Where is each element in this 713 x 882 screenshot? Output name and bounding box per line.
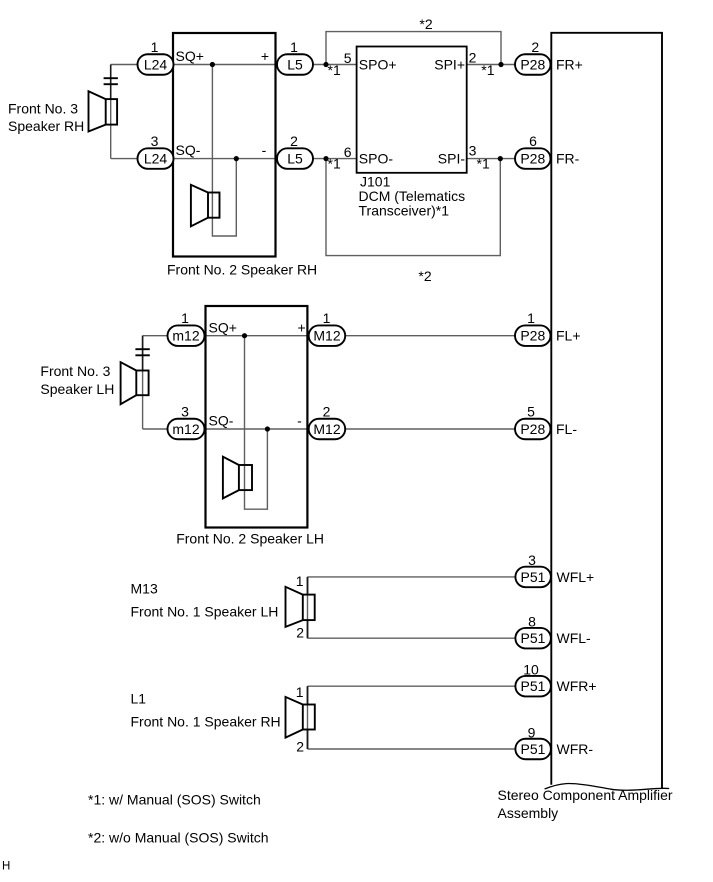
node dot row2 right of J101: [498, 156, 503, 161]
svg-text:2: 2: [296, 625, 304, 641]
lead dark M13 speaker top: [307, 577, 309, 595]
svg-text:Speaker LH: Speaker LH: [40, 381, 114, 397]
svg-text:*1: *1: [481, 62, 494, 78]
connector oval P51 pin10: [515, 676, 551, 697]
speaker symbol Front No.3 Speaker LH: [121, 362, 149, 404]
svg-text:P28: P28: [520, 151, 545, 167]
svg-text:Transceiver)*1: Transceiver)*1: [359, 203, 450, 219]
svg-text:8: 8: [528, 614, 536, 630]
connector oval m12 pin1: [168, 325, 205, 346]
svg-text:DCM (Telematics: DCM (Telematics: [359, 188, 466, 204]
wavy bottom edge of amplifier box: [545, 784, 670, 791]
connector oval L5 pin2: [277, 148, 313, 169]
lead dark capacitor LH top: [142, 336, 144, 371]
connector oval P51 pin9: [515, 739, 551, 760]
node dot row2 left of J101: [323, 156, 328, 161]
svg-text:WFR-: WFR-: [557, 741, 594, 757]
svg-text:2: 2: [531, 39, 539, 55]
node dot row3 box LH: [242, 333, 247, 338]
svg-text:Stereo Component Amplifier: Stereo Component Amplifier: [498, 787, 673, 803]
svg-text:-: -: [262, 142, 267, 158]
node dot row4 box LH: [265, 426, 270, 431]
svg-text:1: 1: [296, 684, 304, 700]
connector oval L5 pin1: [277, 54, 313, 75]
svg-text:L5: L5: [287, 57, 303, 73]
svg-text:FR-: FR-: [556, 151, 580, 167]
svg-text:SQ+: SQ+: [209, 319, 237, 335]
svg-text:L24: L24: [144, 57, 168, 73]
speaker symbol L1 Front No.1 Speaker RH: [286, 697, 315, 738]
connector oval P28 pin1: [515, 325, 551, 346]
svg-text:2: 2: [296, 739, 304, 755]
box Stereo Component Amplifier (wavy bottom): [551, 33, 662, 789]
node dot row1 box RH: [210, 62, 215, 67]
svg-text:1: 1: [181, 310, 189, 326]
connector oval P51 pin8: [515, 628, 551, 649]
svg-text:SPO+: SPO+: [359, 57, 397, 73]
svg-text:1: 1: [296, 573, 304, 589]
svg-text:P51: P51: [521, 741, 546, 757]
connector oval L24 pin3: [138, 148, 174, 169]
connector oval P28 pin5: [515, 419, 551, 440]
wire inside LH box loop: [245, 336, 268, 510]
svg-text:P51: P51: [521, 569, 546, 585]
wire *2 bypass bottom: [326, 159, 500, 256]
wire row2 FR- right: [467, 158, 515, 160]
svg-text:3: 3: [528, 552, 536, 568]
svg-text:5: 5: [344, 50, 352, 66]
wire inside RH box loop: [212, 65, 236, 237]
wire row6 WFL-: [308, 637, 516, 639]
connector oval M12 pin2: [309, 419, 346, 440]
svg-text:FL+: FL+: [556, 328, 581, 344]
connector oval m12 pin3: [168, 419, 205, 440]
wire row4 FL-: [143, 428, 515, 430]
wire *2 bypass top: [326, 32, 501, 65]
wire row7 WFR+: [308, 685, 516, 687]
svg-text:Front No. 2 Speaker LH: Front No. 2 Speaker LH: [176, 530, 324, 546]
svg-text:FR+: FR+: [556, 57, 583, 73]
svg-text:2: 2: [469, 49, 477, 65]
svg-text:6: 6: [529, 133, 537, 149]
svg-text:P28: P28: [520, 421, 545, 437]
svg-text:Front No. 3: Front No. 3: [40, 363, 110, 379]
svg-text:*2: w/o Manual (SOS) Switch: *2: w/o Manual (SOS) Switch: [88, 830, 269, 846]
svg-text:SQ-: SQ-: [176, 142, 201, 158]
svg-text:SQ-: SQ-: [209, 413, 234, 429]
svg-text:P28: P28: [520, 328, 545, 344]
svg-text:Front No. 1 Speaker LH: Front No. 1 Speaker LH: [131, 604, 279, 620]
wire row8 WFR-: [308, 748, 516, 750]
svg-text:*1: *1: [328, 156, 341, 172]
node dot row2 box RH: [234, 156, 239, 161]
capacitor C (Front No.3 Speaker LH): [135, 349, 149, 355]
svg-text:P51: P51: [521, 630, 546, 646]
svg-text:+: +: [261, 48, 269, 64]
svg-text:M12: M12: [313, 421, 340, 437]
capacitor C (Front No.3 Speaker RH): [104, 78, 118, 84]
svg-text:SQ+: SQ+: [176, 48, 204, 64]
svg-text:m12: m12: [172, 421, 199, 437]
lead dark capacitor RH top: [110, 65, 112, 100]
svg-text:*1: w/ Manual (SOS) Switch: *1: w/ Manual (SOS) Switch: [88, 792, 261, 808]
svg-text:L1: L1: [131, 691, 147, 707]
box Front No.2 Speaker RH: [173, 33, 276, 257]
speaker symbol inside Front No.2 Speaker RH: [191, 185, 220, 227]
wire speaker LH No.3 branch vertical: [142, 336, 144, 429]
svg-text:SPO-: SPO-: [359, 151, 394, 167]
box J101 DCM: [357, 47, 467, 173]
svg-text:Front No. 3: Front No. 3: [8, 101, 78, 117]
svg-text:P51: P51: [521, 678, 546, 694]
svg-text:SPI+: SPI+: [434, 57, 465, 73]
wire row5 WFL+: [308, 576, 516, 578]
svg-text:L5: L5: [287, 151, 303, 167]
wire L1 speaker vertical: [307, 686, 309, 749]
svg-text:3: 3: [469, 142, 477, 158]
svg-text:2: 2: [290, 133, 298, 149]
wire M13 speaker vertical: [307, 577, 309, 638]
svg-text:WFL-: WFL-: [557, 630, 592, 646]
connector oval L24 pin1: [138, 54, 174, 75]
node dot row1 left of J101: [323, 62, 328, 67]
svg-text:9: 9: [528, 724, 536, 740]
svg-text:-: -: [297, 413, 302, 429]
svg-text:P28: P28: [520, 57, 545, 73]
wire row3 FL+: [143, 335, 515, 337]
connector oval P28 pin6: [515, 148, 551, 169]
svg-text:Speaker RH: Speaker RH: [8, 118, 84, 134]
wire speaker RH No.3 branch vertical: [110, 65, 112, 159]
svg-text:6: 6: [344, 144, 352, 160]
svg-text:H: H: [2, 861, 10, 873]
svg-text:Front No. 1 Speaker RH: Front No. 1 Speaker RH: [131, 714, 281, 730]
svg-text:1: 1: [151, 39, 159, 55]
svg-text:*1: *1: [477, 156, 490, 172]
connector oval P28 pin2: [515, 54, 551, 75]
svg-text:M12: M12: [313, 328, 340, 344]
lead dark M13 speaker bottom: [307, 620, 309, 638]
svg-text:L24: L24: [144, 151, 168, 167]
lead dark L1 speaker bottom: [307, 730, 309, 750]
wire row1 FR+ right: [467, 64, 515, 66]
svg-text:M13: M13: [131, 581, 158, 597]
svg-text:1: 1: [323, 310, 331, 326]
box Front No.2 Speaker LH: [206, 306, 308, 528]
wire row1 FR+ left: [111, 64, 357, 66]
wire row2 FR- left: [111, 158, 357, 160]
svg-text:Assembly: Assembly: [498, 805, 559, 821]
svg-text:5: 5: [527, 404, 535, 420]
speaker symbol M13 Front No.1 Speaker LH: [286, 587, 315, 627]
node dot row1 right of J101: [498, 62, 503, 67]
lead dark L1 speaker top: [307, 686, 309, 704]
svg-text:3: 3: [151, 133, 159, 149]
svg-text:2: 2: [323, 404, 331, 420]
svg-text:3: 3: [181, 404, 189, 420]
svg-text:SPI-: SPI-: [438, 151, 466, 167]
speaker symbol Front No.3 Speaker RH: [89, 91, 118, 131]
svg-text:Front No. 2 Speaker RH: Front No. 2 Speaker RH: [167, 262, 317, 278]
svg-text:1: 1: [527, 310, 535, 326]
speaker symbol inside Front No.2 Speaker LH: [223, 457, 252, 499]
svg-text:1: 1: [290, 39, 298, 55]
svg-text:m12: m12: [172, 328, 199, 344]
svg-text:*1: *1: [328, 62, 341, 78]
connector oval P51 pin3: [515, 567, 551, 588]
svg-text:10: 10: [523, 662, 539, 678]
svg-text:+: +: [298, 319, 306, 335]
connector oval M12 pin1: [309, 325, 346, 346]
svg-text:WFR+: WFR+: [557, 678, 597, 694]
svg-text:WFL+: WFL+: [557, 569, 595, 585]
svg-text:*2: *2: [419, 16, 432, 32]
svg-text:FL-: FL-: [556, 421, 577, 437]
svg-text:*2: *2: [418, 268, 431, 284]
